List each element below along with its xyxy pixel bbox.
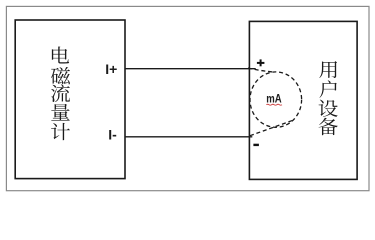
wire I+ to + xyxy=(125,68,256,70)
red underline xyxy=(266,103,282,106)
terminal + xyxy=(257,59,265,66)
label 用户设备 xyxy=(319,61,338,135)
flowmeter box xyxy=(15,20,125,179)
label 电磁流量计 xyxy=(51,47,70,141)
svg-text:mA: mA xyxy=(266,92,282,106)
svg-text:I+: I+ xyxy=(105,61,117,77)
svg-text:I-: I- xyxy=(108,126,117,142)
terminal - xyxy=(253,144,259,146)
ammeter dashed loop xyxy=(248,68,302,136)
user device box xyxy=(249,21,357,179)
wire I- to - xyxy=(125,136,252,138)
